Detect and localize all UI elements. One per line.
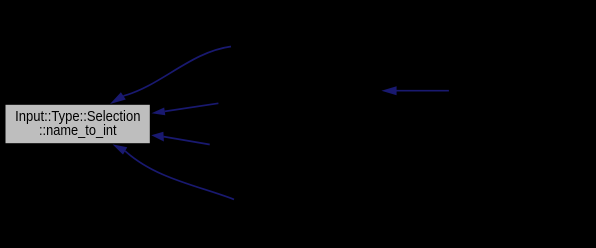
wire: edge between hidden callers on the right <box>381 86 449 95</box>
wire: edge from hidden caller 1 (top) into node top <box>110 47 231 105</box>
wire: edge from hidden caller 2 into node right side (upper) <box>152 103 219 115</box>
wire: edge from hidden caller 4 (bottom) into node bottom <box>113 144 234 199</box>
node: Input::Type::Selection::name_to_int <box>6 105 150 143</box>
svg-text:::name_to_int: ::name_to_int <box>39 123 117 139</box>
wire: edge from hidden caller 3 into node right side (lower) <box>151 132 209 145</box>
